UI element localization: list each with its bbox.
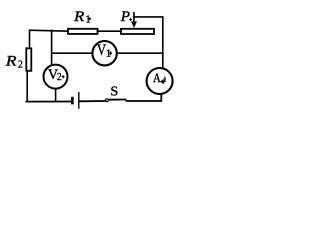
svg-text:P: P	[120, 9, 130, 25]
svg-text:A: A	[153, 70, 161, 85]
svg-text:2: 2	[57, 72, 62, 83]
svg-text:2: 2	[18, 59, 23, 70]
svg-text:R: R	[5, 54, 17, 70]
svg-text:R: R	[73, 9, 84, 25]
svg-text:S: S	[110, 85, 118, 100]
